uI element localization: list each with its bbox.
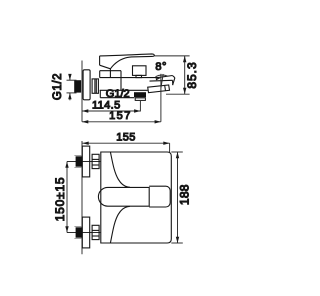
85.3 bottom extension line <box>166 93 190 95</box>
8 deg angle: dimension arc <box>156 75 168 77</box>
155 dimension line with arrows <box>82 142 169 144</box>
spout end collar (parallelogram) <box>148 85 170 93</box>
top connector: nipple (black) <box>76 156 83 166</box>
85.3 top extension line <box>155 55 190 57</box>
spout tip face <box>172 76 175 78</box>
svg-text:G1/2: G1/2 <box>52 73 64 100</box>
top connector: axis leader line <box>67 161 101 163</box>
150±15 dimension line with arrows <box>66 162 68 233</box>
faucet body outline (front view) <box>101 152 172 243</box>
body-to-lever transition curve (top) <box>110 152 129 187</box>
cartridge cap (front view) <box>149 186 170 207</box>
spout outlet box (side view) <box>99 90 101 97</box>
114.5 dimension line with arrows <box>82 110 140 112</box>
G1/2 threaded nipple (black, side view) <box>74 80 81 92</box>
wall line (front view) <box>81 141 83 254</box>
spout top line (side view) <box>100 77 158 79</box>
bottom connector: axis leader line <box>67 232 101 234</box>
85.3 dimension line with arrows <box>184 56 186 94</box>
G1/2 dimension ticks <box>67 79 77 81</box>
bottom connector: nipple (black) <box>76 227 83 237</box>
outlet ring <box>135 98 145 101</box>
svg-text:188: 188 <box>178 184 192 205</box>
body-to-lever transition curve (bottom) <box>110 206 129 243</box>
escutcheon flange (side view) <box>83 70 90 100</box>
lever grip (front view, stadium) <box>98 187 149 206</box>
188 dimension line with arrows <box>177 152 179 243</box>
155 right extension line <box>169 143 171 152</box>
shower outlet tip (black) <box>134 92 146 97</box>
wall line (side view) <box>81 61 83 122</box>
spout end seam <box>150 79 173 82</box>
spout end rising edge (8 deg) <box>158 76 172 78</box>
188 bottom extension line <box>171 242 183 244</box>
hex nut (side view) <box>92 79 98 93</box>
188 top extension line <box>171 151 183 153</box>
svg-text:150±15: 150±15 <box>53 177 67 222</box>
lever handle (side view) <box>100 54 155 69</box>
svg-text:155: 155 <box>116 132 136 144</box>
8 deg small arrow on spout line <box>156 78 161 81</box>
bottom connector: escutcheon <box>82 217 89 248</box>
bottom connector: hex nut <box>92 225 99 239</box>
svg-text:8°: 8° <box>155 61 167 73</box>
diverter knob (side view) <box>133 66 147 76</box>
svg-text:G1/2: G1/2 <box>106 88 130 100</box>
G1/2 dimension line with arrows <box>69 74 71 80</box>
top connector: escutcheon <box>82 146 89 177</box>
157 dimension line with arrows <box>82 121 161 123</box>
svg-text:85.3: 85.3 <box>185 61 199 88</box>
svg-text:157: 157 <box>109 110 132 122</box>
8 deg angle: slanted line <box>161 74 163 88</box>
114.5 extension line <box>139 101 141 112</box>
spout underside line <box>100 89 148 91</box>
8 deg angle: vertical reference line (also 157 extension) <box>160 74 162 122</box>
faucet body block (side view) <box>100 70 121 72</box>
top connector: hex nut <box>92 154 99 168</box>
